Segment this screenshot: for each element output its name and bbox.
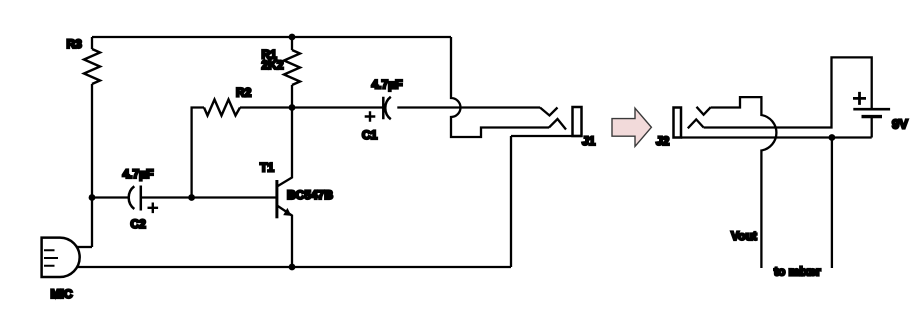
svg-text:R2: R2: [236, 86, 252, 100]
wire R2 to collector node: [240, 106, 292, 108]
arrow symbol: [612, 108, 651, 146]
node junction at R3/C2/mic: [89, 194, 96, 201]
wire J2 ring to battery plus: [704, 57, 872, 127]
wire MIC top lead: [76, 246, 92, 248]
svg-text:Vout: Vout: [731, 229, 757, 243]
transistor T1 emitter arrowhead: [283, 208, 291, 216]
J2 tip contact: [697, 107, 711, 115]
svg-text:C2: C2: [131, 217, 147, 231]
wire R2 riser: [192, 108, 204, 198]
wire C2 left lead: [92, 196, 128, 198]
svg-text:J1: J1: [582, 134, 596, 148]
svg-text:C1: C1: [362, 128, 378, 142]
node junction emitter/bottom rail: [289, 264, 296, 271]
battery BT1 stem: [871, 118, 873, 138]
battery BT1 negative plate: [862, 115, 883, 118]
node junction base/R2: [188, 194, 195, 201]
resistor R1: [284, 50, 300, 85]
wire bottom rail: [77, 266, 511, 268]
node junction top rail/R1: [289, 34, 296, 41]
node junction collector: [289, 104, 296, 111]
resistor R3: [84, 49, 100, 84]
svg-text:R3: R3: [67, 37, 83, 51]
transistor T1 collector: [277, 108, 292, 187]
svg-text:J2: J2: [656, 134, 670, 148]
resistor R2: [204, 100, 240, 116]
wire left column: [91, 37, 93, 247]
J2 ring contact: [688, 119, 704, 128]
svg-text:BC547B: BC547B: [287, 188, 333, 202]
microphone MIC: [42, 238, 80, 277]
J2 plug body: [674, 108, 682, 138]
wire to mixer drop: [831, 138, 833, 269]
J1 tip contact: [540, 108, 558, 116]
svg-text:9V: 9V: [892, 117, 908, 132]
battery plus sign: [853, 92, 866, 105]
svg-text:T1: T1: [260, 161, 274, 175]
wire C1 to J1 tip: [397, 106, 540, 108]
C2 plus sign: [148, 203, 159, 214]
wire J2 sleeve to battery minus: [681, 136, 872, 138]
transistor T1 emitter: [277, 206, 292, 268]
node junction sleeve/to mixer: [829, 134, 836, 141]
svg-text:MIC: MIC: [51, 287, 73, 301]
wire C2 to base: [141, 196, 276, 198]
J1 plug body: [573, 107, 582, 136]
J1 ring contact: [549, 119, 566, 130]
wire top rail: [92, 36, 451, 38]
svg-text:4.7µF: 4.7µF: [372, 77, 403, 91]
capacitor C1: [383, 97, 391, 120]
svg-text:to mixer: to mixer: [774, 265, 821, 279]
wire collector node to C1: [292, 106, 383, 108]
wire R1 top lead: [291, 37, 293, 50]
svg-text:4.7µF: 4.7µF: [123, 167, 154, 181]
wire J1 sleeve: [511, 136, 582, 267]
wire R1 bottom lead: [291, 85, 293, 108]
wire J2 tip to Vout with hop: [711, 97, 777, 268]
capacitor C2: [129, 186, 141, 211]
svg-text:2K2: 2K2: [262, 58, 284, 72]
wire top rail down with hop: [451, 37, 549, 137]
battery BT1 positive plate: [853, 108, 890, 111]
mic capsule detail lines: [44, 250, 58, 265]
C1 plus sign: [365, 111, 376, 122]
transistor T1 base bar: [275, 180, 278, 218]
